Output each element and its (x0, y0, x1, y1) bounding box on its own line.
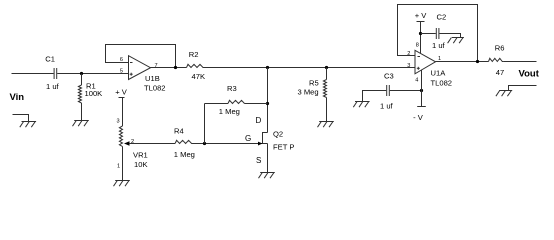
svg-text:2: 2 (131, 139, 134, 145)
svg-text:TL082: TL082 (431, 78, 453, 87)
wire Vout ground stub (509, 86, 537, 91)
node junction C3/-V (420, 89, 423, 92)
resistor R3 (205, 84, 268, 116)
ground at Vin (20, 122, 36, 128)
wire C1 to U1B pin 5 (57, 73, 128, 75)
node junction R3/gate (203, 142, 206, 145)
power -V at U1A pin 4 (413, 107, 426, 123)
capacitor C1 (45, 55, 59, 92)
resistor R5 (298, 68, 327, 122)
node junction C1/R1 (80, 72, 83, 75)
ground under R5 (318, 122, 334, 128)
wire U1A output (436, 61, 489, 63)
svg-text:6: 6 (120, 57, 123, 63)
wire pin 4 down to -V (421, 70, 423, 107)
svg-text:U1A: U1A (431, 69, 447, 78)
op-amp U1B (129, 56, 166, 93)
svg-text:TL082: TL082 (144, 84, 166, 93)
svg-text:1 uf: 1 uf (380, 102, 394, 111)
svg-text:3: 3 (407, 63, 410, 69)
svg-text:1 Meg: 1 Meg (174, 150, 195, 159)
wire drain riser (267, 68, 269, 133)
svg-text:3 Meg: 3 Meg (298, 88, 319, 97)
svg-text:1 uf: 1 uf (432, 41, 446, 50)
svg-text:D: D (256, 116, 262, 125)
svg-text:R2: R2 (189, 50, 199, 59)
svg-text:R5: R5 (309, 79, 319, 88)
node junction drain riser (266, 66, 269, 69)
power +V at VR1 (115, 87, 128, 97)
svg-text:C1: C1 (45, 55, 55, 64)
svg-text:47: 47 (496, 68, 504, 77)
wire VR1 bottom (122, 147, 124, 181)
svg-text:Vin: Vin (10, 92, 25, 103)
wire C3 left leg (363, 91, 387, 102)
capacitor C3 (380, 72, 394, 111)
svg-text:10K: 10K (134, 160, 148, 169)
wire C3 to -V rail (390, 90, 422, 92)
svg-text:FET P: FET P (273, 143, 294, 152)
svg-text:C3: C3 (384, 72, 394, 81)
ground under Q2 source (259, 173, 275, 179)
svg-text:2: 2 (407, 51, 410, 57)
wire R4 to Q2 gate (193, 143, 263, 145)
svg-text:5: 5 (120, 68, 123, 74)
svg-text:U1B: U1B (145, 74, 160, 83)
svg-text:+ V: + V (415, 11, 428, 20)
ground at Vout (496, 91, 512, 97)
svg-text:R3: R3 (227, 84, 237, 93)
wire R3 left leg down to gate wire (204, 104, 206, 144)
svg-text:4: 4 (415, 78, 418, 84)
svg-text:1: 1 (117, 164, 120, 170)
wire R6 to Vout (503, 61, 536, 63)
ground under VR1 (114, 181, 130, 187)
wire VR1 top (122, 98, 124, 127)
svg-text:100K: 100K (85, 89, 103, 98)
ground at C3 left (353, 102, 369, 108)
transistor Q2 FET (245, 116, 294, 173)
wire +V to C2 (421, 33, 436, 35)
svg-text:G: G (245, 134, 251, 143)
svg-text:Q2: Q2 (273, 130, 283, 139)
ground at C2 (448, 38, 464, 44)
wire pin 8 riser (420, 22, 422, 54)
wire C2 to ground (439, 34, 460, 38)
power +V at U1A pin 8 (415, 11, 428, 22)
ground under R1 (73, 121, 89, 127)
svg-text:- V: - V (413, 113, 424, 122)
node junction U1A output/feedback (476, 60, 479, 63)
svg-text:R4: R4 (174, 127, 184, 136)
resistor R1 (78, 74, 102, 121)
node junction U1B output/feedback (174, 66, 177, 69)
wire U1A feedback box (398, 5, 478, 62)
potentiometer VR1 (119, 126, 147, 169)
node junction R3/drain (266, 102, 269, 105)
node junction R5 (325, 66, 328, 69)
svg-text:8: 8 (416, 43, 419, 49)
wire U1B feedback loop (106, 45, 176, 68)
resistor R4 (174, 127, 195, 160)
wire VR1 wiper to R4 (129, 143, 175, 145)
wire Vin ground stub (13, 115, 29, 122)
svg-text:R6: R6 (495, 44, 505, 53)
svg-text:C2: C2 (437, 13, 447, 22)
svg-text:1 Meg: 1 Meg (219, 107, 240, 116)
svg-text:Vout: Vout (519, 68, 540, 79)
op-amp U1A (415, 50, 452, 87)
svg-text:3: 3 (117, 119, 120, 125)
wire R2 to U1A pin 3 (205, 67, 415, 69)
node junction C2/+V (419, 32, 422, 35)
wire input from Vin to C1 (12, 73, 54, 75)
svg-text:+ V: + V (115, 87, 128, 96)
svg-text:S: S (256, 156, 261, 165)
svg-text:VR1: VR1 (133, 151, 148, 160)
wire U1B output (151, 67, 187, 69)
resistor R6 (489, 44, 505, 77)
svg-text:47K: 47K (192, 72, 206, 81)
svg-text:1 uf: 1 uf (46, 82, 60, 91)
resistor R2 (187, 50, 206, 81)
capacitor C2 (432, 13, 446, 51)
